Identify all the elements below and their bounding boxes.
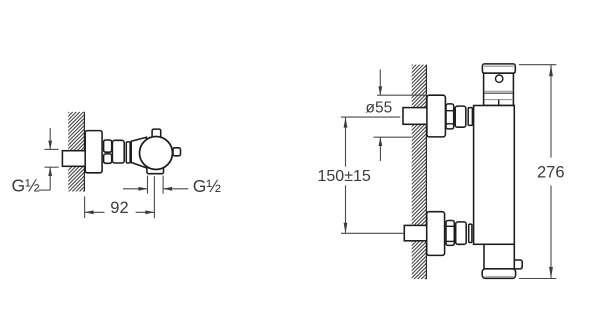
right tab at bottom (front view) [512, 260, 522, 269]
main body (front view) [474, 106, 515, 245]
dimension 92 line with arrows [85, 210, 155, 214]
svg-text:G½: G½ [193, 176, 222, 196]
lower supply pipe (front view) [404, 225, 427, 240]
neck below cap (front view) [484, 73, 514, 105]
lower spacer cylinder (front view) [456, 222, 467, 244]
upper supply pipe (front view) [403, 108, 428, 125]
wall (hatched) front view [198, 65, 600, 280]
spacer cylinder (left view) [112, 140, 124, 163]
arrow up to pipe bottom with leader to G1/2 [39, 167, 52, 190]
upper ring (front view) [468, 108, 472, 126]
ring (left view) [126, 142, 130, 163]
screw hole circle on neck [496, 75, 503, 82]
276 upper stem with up arrow [549, 65, 553, 158]
knob right tab (left view) [173, 148, 181, 156]
svg-text:276: 276 [537, 163, 565, 181]
center line of bottom connection [341, 232, 404, 234]
upper hex nut (front view) [446, 104, 454, 129]
wall flange escutcheon (left view) [85, 131, 102, 173]
top cap (front view) [482, 64, 515, 73]
control knob circle (left view) [140, 137, 173, 170]
lower hex nut (front view) [446, 221, 454, 246]
svg-text:ø55: ø55 [366, 100, 393, 117]
dimension 150+-15 upper stem with up arrow [344, 117, 348, 166]
outlet tab below knob (left view) [147, 164, 164, 174]
center line of top connection (o55 underline) [341, 116, 400, 118]
knob top tab (left view) [152, 129, 161, 138]
svg-text:150±15: 150±15 [318, 168, 371, 185]
wall (hatched) left view [0, 112, 163, 192]
supply pipe through wall (left view) [62, 151, 86, 167]
svg-text:92: 92 [110, 199, 128, 217]
dimension 92 extension line at wall face [84, 196, 86, 218]
dimension 276: bottom extension line [519, 278, 557, 280]
bottom cap (front view) [482, 269, 515, 278]
upper spacer cylinder (front view) [455, 106, 466, 127]
lower ring (front view) [469, 224, 472, 242]
276 lower stem with down arrow [549, 186, 553, 279]
dimension 150+-15 lower stem with down arrow [344, 186, 348, 234]
lower flange escutcheon (front view) [427, 212, 445, 256]
arrow up to flange bottom [379, 137, 383, 161]
upper flange escutcheon (front view) [427, 95, 446, 137]
tapered body cone (left view) [131, 137, 146, 168]
dimension o55: top extension line [377, 94, 427, 96]
arrow down to pipe top [48, 128, 52, 149]
outlet side extension lines [148, 176, 164, 194]
dimension 276: top extension line [519, 64, 557, 66]
arrow down to flange top [378, 70, 382, 96]
dimension o55: bottom extension line [374, 136, 412, 138]
dimension: pipe thread extension lines (left view) [44, 149, 58, 167]
lower valve section (front view) [484, 244, 514, 269]
hex nut (left view) [104, 140, 112, 163]
G1/2 outlet arrows (left view bottom) [123, 187, 188, 191]
center line below outlet [153, 176, 155, 218]
svg-text:G½: G½ [12, 175, 41, 195]
